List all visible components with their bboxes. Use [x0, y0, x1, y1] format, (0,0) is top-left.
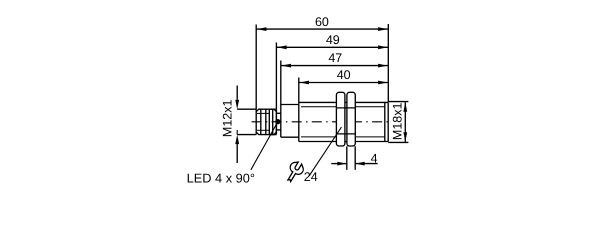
svg-text:4: 4 — [371, 151, 378, 165]
nut hex facet line bottom — [336, 133, 355, 135]
M12 dimension tick bottom — [237, 134, 256, 136]
M12 thread root lines — [257, 112, 269, 114]
neck ring — [276, 112, 280, 114]
M12 collar rings — [272, 109, 274, 134]
M12 dimension arrow bottom — [236, 130, 238, 135]
LED dot — [275, 119, 280, 124]
extension line 47 left — [280, 61, 282, 105]
M12 connector thread lines — [260, 109, 262, 134]
dimension line 49 — [276, 46, 388, 48]
thread root lines — [301, 106, 337, 108]
body end chamfer line — [384, 102, 386, 141]
nut thickness extension lines — [346, 146, 348, 170]
dimension line 47 — [281, 65, 389, 67]
body end face — [387, 102, 389, 141]
svg-text:49: 49 — [326, 33, 340, 47]
body collar — [280, 105, 282, 138]
extension line 60 left — [255, 25, 257, 110]
nut 1 — [336, 92, 345, 146]
M12 dimension arrow top — [236, 86, 238, 100]
centerline — [252, 121, 393, 123]
extension line 40 left — [298, 78, 300, 103]
M18 tick top — [388, 101, 408, 103]
svg-text:LED 4 x 90°: LED 4 x 90° — [187, 170, 255, 185]
M18 tick bottom — [388, 141, 408, 143]
extension line right shared — [387, 24, 389, 102]
dimension line 40 — [299, 82, 389, 84]
wrench symbol — [283, 160, 305, 185]
nut 2 — [347, 92, 355, 146]
extension line 49 left — [275, 43, 277, 110]
svg-text:M18x1: M18x1 — [390, 102, 404, 140]
M18 vertical dimension arrows — [404, 102, 406, 142]
svg-text:47: 47 — [328, 51, 342, 65]
M12 connector outline — [256, 109, 276, 134]
svg-text:40: 40 — [337, 68, 351, 82]
wrench leader line — [309, 127, 341, 176]
svg-text:M12x1: M12x1 — [220, 99, 234, 137]
thread crest lines — [299, 101, 388, 103]
thread start line — [298, 102, 300, 141]
dimension line 60 — [256, 28, 388, 30]
svg-text:24: 24 — [304, 170, 318, 184]
LED leader line — [251, 122, 278, 170]
dimension 4 arrows — [331, 163, 347, 165]
M12 dimension tick top — [237, 108, 256, 110]
nut hex facet line top — [336, 107, 355, 109]
svg-text:60: 60 — [315, 15, 329, 29]
